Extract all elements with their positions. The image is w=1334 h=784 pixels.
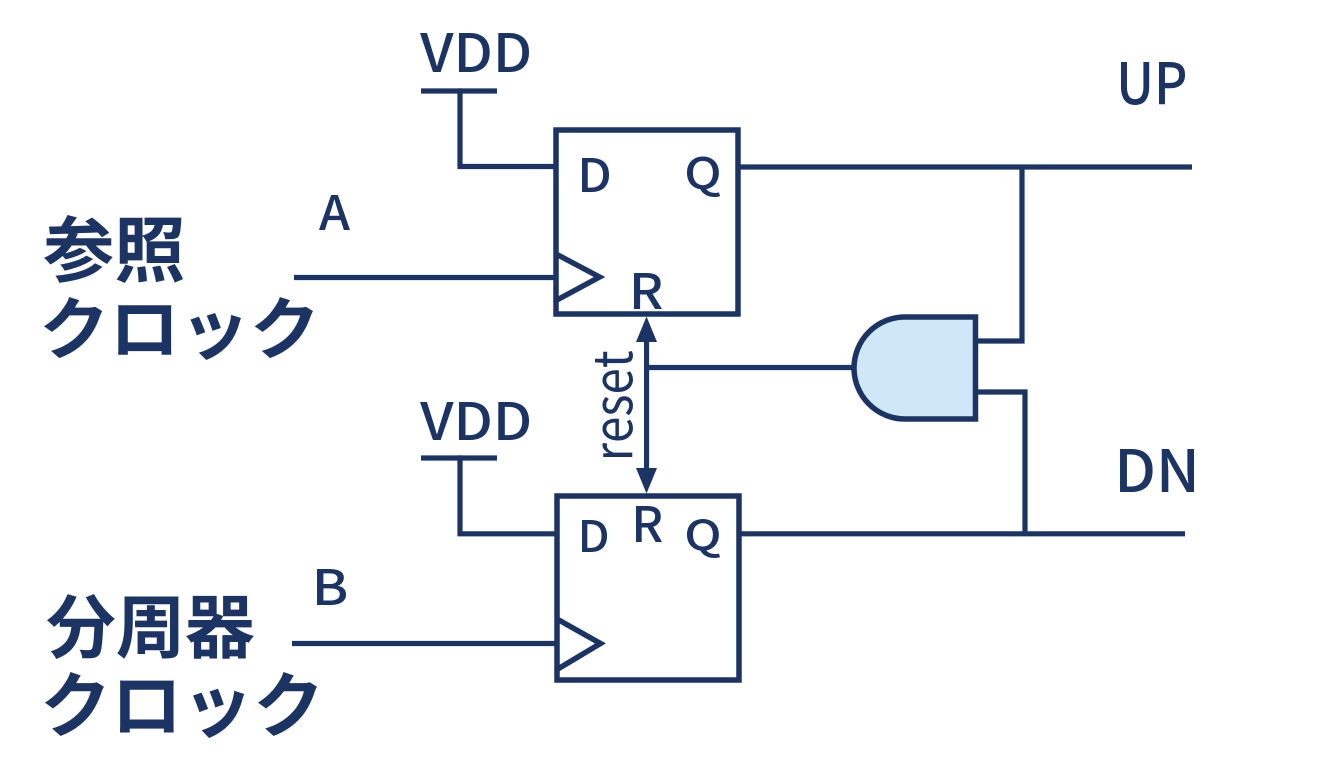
FF1 pin Q — [687, 156, 720, 197]
FF1 pin R — [634, 273, 662, 309]
label VDD (top) — [420, 33, 529, 72]
wire AND gate output to reset node — [649, 365, 854, 370]
wire VDD1 to FF1 D input — [460, 88, 556, 166]
FF1 clock edge triangle — [556, 254, 600, 301]
FF2 clock edge triangle — [557, 619, 601, 670]
reset double-headed arrow wire — [636, 317, 657, 494]
arrowhead up into FF1 R — [636, 317, 657, 343]
label DN — [1120, 449, 1194, 492]
D flip-flop FF2 box — [557, 496, 739, 680]
wire UP branch down to AND gate input 1 — [977, 167, 1022, 341]
FF1 pin D — [582, 158, 609, 192]
arrowhead down into FF2 R — [636, 468, 657, 494]
FF2 pin Q — [687, 519, 720, 558]
label クロック (bottom) — [45, 672, 317, 738]
label 分周器 (divider) — [47, 594, 254, 659]
label VDD (bottom) — [420, 402, 529, 440]
VDD rail bottom — [421, 455, 497, 460]
FF2 pin R — [636, 506, 662, 542]
label UP — [1121, 62, 1185, 105]
label 参照 (reference) — [44, 215, 183, 283]
wire B input to FF2 clock — [292, 641, 557, 646]
wire FF2 Q to DN output — [739, 531, 1185, 536]
wire VDD2 to FF2 D input — [460, 455, 557, 533]
label クロック (top) — [44, 297, 313, 360]
AND gate U1 (mirrored, output on left) — [854, 317, 976, 419]
label A — [319, 195, 350, 230]
wire FF1 Q to UP output — [738, 164, 1192, 169]
FF2 pin D — [582, 520, 607, 552]
wire DN branch up to AND gate input 2 — [977, 392, 1025, 534]
label reset (rotated) — [595, 351, 633, 457]
label B — [317, 569, 346, 605]
wire A input to FF1 clock — [294, 275, 556, 280]
reset arrow shaft — [644, 336, 649, 474]
VDD rail top — [421, 88, 497, 93]
D flip-flop FF1 box — [556, 130, 738, 314]
